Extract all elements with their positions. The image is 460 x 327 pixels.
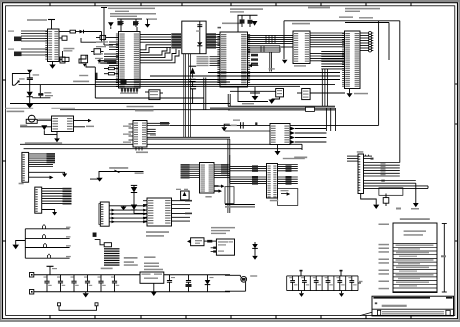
connector bracket bbox=[73, 73, 97, 83]
label section left bbox=[7, 111, 25, 113]
power stub P4 bbox=[340, 270, 343, 276]
wire bus D elbows bbox=[298, 108, 336, 138]
led DS1 bbox=[225, 275, 257, 291]
resistor R4 bbox=[104, 73, 119, 75]
jumper W0 bbox=[25, 224, 70, 228]
connector J5 bbox=[95, 240, 120, 270]
power rail vertical V1 bbox=[101, 8, 113, 46]
table left labels bbox=[379, 224, 390, 290]
capacitor C16 bbox=[186, 275, 192, 292]
connector J3 bbox=[99, 202, 109, 226]
wire long bus F bbox=[20, 144, 302, 150]
wire bus U5 left lower bbox=[321, 51, 344, 106]
wire vertical pair x270 bbox=[269, 52, 275, 71]
corner mark bbox=[360, 312, 372, 315]
ic U9 bbox=[267, 164, 278, 199]
label net stubs U3 right bbox=[251, 54, 258, 65]
wire U10 left pins bbox=[143, 201, 147, 221]
power arrow A6 bbox=[189, 66, 196, 77]
ground G12 bbox=[12, 241, 25, 250]
jumper W1 bbox=[25, 234, 70, 238]
wire U2 bottom pins bbox=[120, 80, 138, 94]
crystal Y1 bbox=[91, 49, 104, 55]
wire long bus C bbox=[10, 103, 230, 105]
rule gray left bbox=[5, 107, 75, 110]
label cap values bbox=[19, 74, 39, 79]
wire J4 left pins bbox=[347, 156, 358, 161]
label under U11 bbox=[205, 196, 211, 198]
wire rail2 top bbox=[287, 275, 358, 277]
wire U11 bottom right bbox=[214, 185, 225, 193]
power tee T3 bbox=[47, 266, 58, 275]
wire U13-U18 bbox=[204, 240, 216, 243]
pad P1 bbox=[30, 273, 34, 278]
wire bus U11-U9 bbox=[214, 164, 230, 178]
title block bbox=[372, 296, 454, 316]
wire J1 pin8 bbox=[29, 176, 54, 180]
ground G5 bbox=[347, 89, 369, 98]
wire U3 bottom bbox=[238, 87, 268, 104]
label under U9 bbox=[270, 200, 278, 202]
diode D7 bbox=[197, 42, 202, 54]
label under U7 bbox=[294, 157, 307, 159]
jumper W3 bbox=[25, 254, 71, 258]
label U5 part number bbox=[339, 16, 353, 18]
label above U8 bbox=[135, 110, 154, 112]
wire long y205 bbox=[225, 205, 255, 208]
wire long bus D bbox=[210, 94, 335, 110]
wire loop right of U1 bbox=[81, 32, 102, 43]
connector J4 bbox=[358, 154, 364, 194]
relay K1 bbox=[176, 189, 189, 200]
label mid-left extra bbox=[144, 256, 155, 258]
wire bus U4-U5 bbox=[310, 33, 345, 47]
dimension line bbox=[441, 224, 447, 293]
wire J4 right pins mid bbox=[364, 180, 416, 203]
ground G3 bbox=[250, 87, 260, 100]
ic U15 bbox=[230, 89, 284, 97]
label net stubs left of U1 bbox=[8, 31, 22, 57]
ic U1 bbox=[45, 29, 59, 62]
ground G6 bbox=[26, 103, 34, 108]
wire bus with arrow to label bbox=[97, 59, 116, 64]
pad P2 bbox=[30, 290, 34, 295]
group outline right bbox=[379, 188, 403, 196]
net arrow A4 bbox=[411, 203, 419, 210]
wire J2 pins bbox=[42, 188, 72, 205]
wire cap join bbox=[32, 97, 50, 99]
capacitor C15 bbox=[167, 275, 175, 292]
capacitor C1 bbox=[59, 36, 67, 40]
capacitor C6b bbox=[27, 74, 33, 92]
group outline bbox=[225, 187, 298, 206]
ic U11 bbox=[200, 163, 215, 194]
power cluster above U3 bbox=[238, 15, 258, 32]
wire bus into U1 left bbox=[21, 31, 48, 55]
wire into U7 left bbox=[225, 130, 270, 132]
wire bus x230-U9 upper bbox=[230, 165, 267, 171]
diode D6 bbox=[252, 242, 258, 256]
wire reset line bbox=[90, 170, 144, 182]
wire bus x230-U9 lower bbox=[230, 176, 267, 185]
zener D2 bbox=[27, 92, 33, 104]
table title text bbox=[404, 230, 426, 235]
ground G8 bbox=[121, 206, 127, 211]
ground G15 bbox=[252, 256, 258, 260]
wire bus coils to U3 bbox=[216, 34, 220, 47]
wire bus U3-U4 lower bbox=[248, 46, 281, 52]
label pin rows into U3 bbox=[197, 56, 221, 66]
resistor R6 bbox=[306, 107, 315, 111]
table row lines bbox=[393, 244, 437, 292]
capacitor C5 bbox=[60, 51, 65, 63]
power net arrow A1 bbox=[108, 22, 114, 29]
wire J3 to U10 bbox=[109, 204, 147, 223]
wire U9 bottom bbox=[281, 190, 291, 196]
wire long bus A bbox=[19, 85, 336, 87]
label zener values bbox=[44, 92, 53, 96]
capacitor C18 bbox=[196, 21, 202, 42]
wire vertical pair mid bbox=[204, 78, 206, 110]
label above table bbox=[400, 218, 430, 220]
power stub U2 top bbox=[121, 27, 137, 32]
ground G11 bbox=[373, 205, 379, 209]
wire U6 right out bbox=[74, 119, 95, 127]
ground G10 bbox=[269, 97, 280, 104]
wire U9 right lower bbox=[278, 176, 298, 185]
ground G2 bbox=[145, 19, 151, 28]
ic U3 bbox=[217, 32, 250, 87]
wire rail top bbox=[34, 274, 230, 276]
capacitor C9 bbox=[189, 79, 195, 86]
wire vertical x95 bbox=[95, 67, 204, 98]
power stub P3 bbox=[300, 270, 303, 276]
label pins left of U2 bbox=[95, 41, 108, 63]
label section io bbox=[25, 142, 62, 144]
ground G9 bbox=[275, 145, 281, 156]
wire bus U2 to coils bbox=[140, 34, 171, 47]
power rail VCC to U1 bbox=[48, 20, 55, 30]
ground under U1 bbox=[49, 62, 55, 69]
ic U18 bbox=[216, 239, 234, 255]
inductor hooks U5 right bbox=[360, 32, 373, 53]
ic U16 bbox=[297, 89, 345, 100]
label net names top-right bbox=[345, 8, 380, 19]
inductor array L1 bbox=[171, 33, 181, 48]
label above U12 bbox=[144, 263, 163, 271]
ground G7 bbox=[54, 132, 60, 143]
transistor Q1 bbox=[81, 55, 88, 67]
regulator U12 bbox=[140, 272, 164, 283]
label VCC net top-left bbox=[27, 19, 47, 21]
wire into U6 lower bbox=[20, 125, 51, 127]
wire J4 bottom bbox=[361, 194, 377, 205]
ic U2 bbox=[116, 32, 140, 89]
ic U14 bbox=[145, 90, 163, 100]
wire J4 right pins upper bbox=[364, 163, 400, 177]
ground G13 bbox=[83, 292, 89, 298]
resistor R1 bbox=[59, 30, 80, 33]
label above J4 bbox=[357, 151, 364, 153]
label U3 part number bbox=[222, 23, 242, 25]
wire bus drop to lower area bbox=[184, 54, 191, 138]
capacitor C8 bbox=[233, 120, 243, 129]
label under J1 bbox=[19, 183, 24, 185]
switch S1 bbox=[12, 80, 21, 85]
ic U10 bbox=[147, 198, 172, 226]
resistor R5 bbox=[383, 194, 389, 207]
wire U9 top stubs bbox=[278, 158, 305, 165]
resistor R3 bbox=[104, 67, 119, 69]
wire vertical pair x228 bbox=[228, 139, 230, 213]
capacitor C2 bbox=[59, 57, 69, 61]
inductor array L2 bbox=[206, 33, 216, 48]
ic U4 bbox=[293, 31, 310, 64]
ground G14 bbox=[151, 283, 157, 296]
wire J2 pin8 bbox=[42, 210, 57, 216]
ic U7 bbox=[270, 124, 290, 145]
filter box U17 bbox=[182, 21, 206, 54]
ground G16 bbox=[299, 291, 304, 297]
ic U5 bbox=[342, 31, 360, 89]
diode D1 bbox=[80, 30, 102, 34]
ground G17 bbox=[339, 291, 344, 297]
label right mid bbox=[396, 208, 401, 210]
label above U10 bbox=[109, 167, 128, 169]
wire long bus C2 bbox=[60, 106, 230, 110]
wire U10 right pins bbox=[172, 200, 193, 221]
label oscillator values bbox=[63, 48, 74, 52]
power drop U4 bbox=[281, 21, 293, 64]
wire U7 right arrows bbox=[291, 127, 327, 144]
wire vertical x230 bbox=[229, 155, 231, 183]
wire osc to U6 bbox=[37, 119, 51, 121]
wire J1 pins bbox=[29, 153, 55, 166]
wire U8 right pins bbox=[147, 122, 170, 136]
wire rail2 bottom bbox=[287, 290, 358, 292]
wire bus U4 lower right bbox=[310, 54, 345, 61]
label under U4 bbox=[294, 65, 306, 66]
wire staircase U2 lower-left bbox=[79, 55, 95, 67]
wire bus U3-U4 upper bbox=[248, 35, 294, 43]
wire top-right loop bbox=[284, 21, 400, 163]
capacitor C17 bbox=[190, 87, 196, 104]
label above U18 bbox=[211, 227, 235, 234]
label bottom mid bbox=[124, 257, 138, 266]
oscillator X1 bbox=[26, 115, 37, 123]
capacitor bank C20-C25 bbox=[287, 276, 358, 291]
wire bus staircase bbox=[140, 45, 179, 63]
wire loop switch bbox=[12, 74, 29, 86]
wire bottom link bbox=[58, 303, 99, 311]
label net names top-middle bbox=[230, 8, 263, 12]
wire rail bottom bbox=[34, 291, 230, 293]
jumper W2 bbox=[25, 243, 71, 247]
connector J1 bbox=[22, 152, 29, 182]
ic U8 bbox=[133, 121, 147, 148]
label right of filter bbox=[218, 27, 222, 29]
capacitor C7 bbox=[93, 226, 97, 237]
wire long bus E bbox=[147, 137, 230, 139]
wire U8 left stubs bbox=[123, 124, 133, 143]
power arrow A3 bbox=[221, 124, 236, 131]
capacitor C3 C4 cluster bbox=[117, 19, 142, 27]
wire U9 right upper bbox=[278, 165, 298, 171]
capacitor C6 bbox=[38, 85, 43, 98]
wire stubs left of U2 bbox=[104, 42, 119, 66]
ic U6 bbox=[52, 116, 74, 132]
table row text bbox=[396, 245, 434, 287]
label U4 part number bbox=[292, 23, 310, 25]
ic U13 bbox=[187, 238, 204, 246]
wire long y125 bbox=[170, 122, 379, 125]
label net name right-edge bbox=[308, 7, 330, 9]
resistor network R2 bbox=[96, 35, 119, 39]
diode D5 bbox=[205, 275, 214, 292]
label net names top-middle-left bbox=[108, 8, 157, 20]
wire J1 pin7 bbox=[29, 172, 68, 177]
label right of bank bbox=[358, 281, 363, 283]
diode D4 bbox=[131, 193, 147, 214]
diode D3 bbox=[131, 185, 137, 192]
net arrow left A8 bbox=[248, 64, 258, 67]
label under U10 bbox=[146, 231, 169, 237]
power arrow A7 bbox=[27, 70, 32, 74]
wire J4 right pins lower bbox=[364, 186, 429, 189]
capacitor bank C10-C14 bbox=[44, 275, 120, 292]
wire jumper join bbox=[24, 229, 26, 258]
wire U8 bottom bbox=[136, 147, 148, 153]
wire J4 top hooks bbox=[364, 155, 374, 160]
connector J2 bbox=[35, 187, 42, 213]
net arrow down A2 bbox=[41, 125, 57, 134]
wire bus into U11 left bbox=[181, 164, 200, 179]
wire U18 left pins bbox=[211, 247, 217, 253]
wire long bus B bbox=[95, 73, 340, 83]
table revision bbox=[393, 223, 437, 293]
